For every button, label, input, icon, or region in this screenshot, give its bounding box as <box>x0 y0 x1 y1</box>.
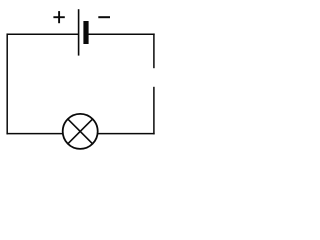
wire: left vertical side <box>6 33 8 134</box>
label: + (positive terminal) <box>53 11 64 23</box>
lamp L1: cross (X) <box>68 119 93 144</box>
battery BT1: negative plate (short thick bar) <box>83 21 88 44</box>
wire: top-right horizontal (battery negative plate to right corner) <box>88 33 154 35</box>
wire: top-left horizontal (battery positive plate to left corner) <box>7 33 78 35</box>
battery BT1: positive plate (long thin line) <box>78 9 80 55</box>
wire: right vertical upper segment (to open gap) <box>153 33 155 68</box>
wire: bottom-right horizontal (lamp to right corner) <box>98 133 155 135</box>
lamp L1: circle <box>63 114 98 149</box>
wire: right vertical lower segment (from open gap) <box>153 87 155 135</box>
label: - (negative terminal) <box>98 16 110 18</box>
wire: bottom-left horizontal (left corner to lamp) <box>6 133 62 135</box>
